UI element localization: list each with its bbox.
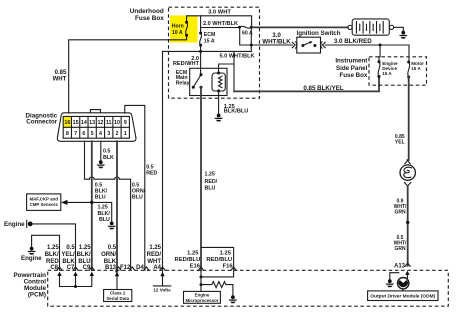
- svg-text:2: 2: [115, 131, 118, 137]
- svg-text:BLU: BLU: [205, 186, 216, 192]
- relay coil (with resistor): [212, 72, 225, 93]
- svg-text:GRN: GRN: [394, 209, 406, 215]
- ground (ODM): [388, 279, 392, 283]
- wire pin2 to B13: [116, 141, 118, 270]
- label 0.85 YEL: [395, 134, 405, 145]
- wire to MAF sensors (arrow): [61, 200, 92, 205]
- wire E16/F16 join inside PCM: [200, 270, 234, 291]
- svg-text:RED/BLU: RED/BLU: [175, 257, 201, 263]
- svg-text:BLK/: BLK/: [77, 252, 91, 258]
- label 1.25 RED/BLU E16: [175, 250, 201, 269]
- label 1.25 RED/WHT A4: [147, 245, 162, 271]
- svg-text:3.0 WHT: 3.0 WHT: [208, 9, 231, 15]
- svg-text:15: 15: [73, 120, 79, 126]
- wire transistor to ODM box: [402, 289, 404, 291]
- svg-text:A13: A13: [394, 263, 406, 269]
- engine connection symbol (C7): [27, 220, 33, 227]
- svg-text:Instrument: Instrument: [335, 58, 367, 65]
- wire A4 riser (1.25 RED/WHT from 5.0 bus): [162, 51, 164, 270]
- Class 2 Serial Data box: [104, 290, 132, 302]
- svg-text:14: 14: [81, 120, 87, 126]
- svg-text:Underhood: Underhood: [130, 8, 164, 15]
- ground (battery): [401, 31, 405, 35]
- diagnostic connector outline: [57, 113, 136, 142]
- wire 3.0 WHT/BLK (to ignition switch): [251, 44, 292, 46]
- wire pin6 to 0.5 ORN/BLU (F12) with hops: [85, 141, 131, 270]
- svg-text:4: 4: [99, 131, 102, 137]
- label 0.85 WHT: [53, 70, 67, 83]
- label Powertrain Control Module (PCM): [13, 272, 46, 299]
- svg-text:Fuse Box: Fuse Box: [135, 15, 164, 22]
- svg-text:YEL: YEL: [395, 139, 405, 145]
- wire 0.9 WHT/GRN - 0.5 WHT/GRN (lamp to A13): [406, 186, 409, 266]
- svg-text:Class 2: Class 2: [110, 290, 126, 295]
- svg-text:ORN/: ORN/: [132, 189, 146, 195]
- fuse ECM 15 A: [199, 32, 215, 47]
- svg-text:C7: C7: [67, 265, 75, 271]
- svg-text:BLU: BLU: [95, 195, 106, 201]
- wire 0.85 YEL (motor fuse to lamp): [408, 77, 409, 160]
- svg-text:0.5: 0.5: [95, 182, 102, 188]
- wire branch to ground 1.25 BLK/BLU: [92, 202, 112, 221]
- fuse 60 A (horizontal): [238, 26, 253, 37]
- svg-text:BLK: BLK: [104, 259, 117, 265]
- wire A13 to output transistor (arrow up): [405, 271, 409, 279]
- wire relay coil top link to 5.0 bus: [219, 51, 234, 91]
- lamp (indicator bulb): [400, 161, 415, 186]
- svg-text:1: 1: [124, 131, 127, 137]
- svg-text:BLU: BLU: [99, 217, 110, 223]
- pin F12: [120, 265, 135, 271]
- pin D4: [136, 265, 149, 271]
- wire battery negative: [394, 27, 404, 31]
- label 3.0 WHT/BLK: [262, 32, 291, 46]
- svg-text:0.85 BLK/YEL: 0.85 BLK/YEL: [303, 85, 343, 92]
- svg-text:BLU: BLU: [132, 195, 143, 201]
- svg-text:1.25: 1.25: [205, 171, 215, 177]
- label 0.5 YEL/BLK C7: [61, 245, 75, 271]
- label 0.5 WHT/GRN: [394, 235, 407, 252]
- svg-text:0.5: 0.5: [132, 182, 139, 188]
- wire pin9 to 0.5 RED (D4): [125, 105, 145, 270]
- relay switch contacts: [192, 73, 203, 88]
- svg-text:WHT: WHT: [53, 77, 67, 83]
- ground (Engine, C8): [30, 247, 34, 251]
- svg-text:1.25: 1.25: [149, 245, 161, 251]
- wire 60A bypass loop to ignition feed: [240, 27, 253, 51]
- MAF,CKP and CMP Sensors box: [27, 194, 61, 211]
- connector chevrons (ignition switch left): [292, 42, 297, 48]
- label 0.5 ORN/BLK B13: [101, 245, 117, 271]
- pin F16: [231, 267, 236, 270]
- label 1.25 RED/BLU F16: [206, 250, 233, 269]
- DLC pin cell grid: [63, 116, 129, 138]
- svg-text:12: 12: [97, 120, 103, 126]
- svg-text:BLK/: BLK/: [98, 211, 111, 217]
- connector chevrons (ignition switch right): [321, 42, 326, 48]
- svg-text:RED/: RED/: [205, 179, 218, 185]
- wire hop over pin5 wire: [90, 177, 95, 179]
- svg-text:BLK/: BLK/: [95, 189, 108, 195]
- svg-text:Horn: Horn: [172, 23, 184, 29]
- label 0.5 BLK: [103, 149, 114, 162]
- wire stub to ground (ODM): [390, 273, 399, 280]
- Output Driver Module box: [368, 291, 438, 301]
- wire 3.0 BLK/RED (ignition to fuse panel): [325, 44, 409, 63]
- wire battery feed (60A to battery left terminal): [251, 26, 347, 28]
- svg-text:WHT/BLK: WHT/BLK: [262, 39, 291, 46]
- resistor (PCM pull-down): [201, 282, 233, 296]
- wire 2.0 WHT/BLK (riser + feed to 60A fuse): [201, 16, 240, 33]
- label 1.25 BLK/BLU: [98, 205, 111, 223]
- label Diagnostic Connector: [26, 112, 58, 125]
- label ECM Main Relay: [176, 70, 190, 87]
- svg-text:13: 13: [89, 120, 95, 126]
- svg-text:6: 6: [82, 131, 85, 137]
- svg-text:(PCM): (PCM): [28, 292, 46, 299]
- DLC pin 16 highlight (yellow): [63, 116, 71, 127]
- pin A13: [405, 263, 410, 266]
- svg-text:9: 9: [124, 120, 127, 126]
- svg-text:Engine: Engine: [195, 292, 210, 297]
- battery: [348, 19, 394, 35]
- svg-text:12 Volts: 12 Volts: [153, 287, 171, 292]
- svg-text:Connector: Connector: [26, 119, 58, 126]
- wire 0.85 WHT (horn fuse to DLC pin 16): [69, 35, 187, 113]
- svg-text:8: 8: [66, 131, 69, 137]
- fuse Motor 15 A: [407, 61, 424, 79]
- Engine Microprocessor box: [184, 291, 221, 303]
- svg-text:ECM: ECM: [204, 32, 216, 38]
- svg-text:5.0 WHT/BLK: 5.0 WHT/BLK: [219, 53, 254, 59]
- wire C7 to Engine 0.5 YEL/BLK: [32, 224, 75, 270]
- wire A4 to 12 Volts terminal: [153, 271, 170, 286]
- pin C8: [57, 267, 62, 270]
- svg-text:15 A: 15 A: [382, 71, 392, 76]
- label 0.5 ORN/BLU: [132, 182, 146, 200]
- transistor (output driver): [398, 278, 409, 289]
- pin E16: [198, 267, 203, 270]
- PCM internal bus (C8 C7 C9): [57, 272, 94, 288]
- pin C7: [73, 267, 78, 270]
- svg-text:1.25: 1.25: [47, 245, 59, 251]
- wire pin5 to C9 (0.5 BLK/BLU / 1.25 BLK/BLU): [90, 141, 93, 270]
- wire relay output 1.25 RED/BLU (to PCM E16): [200, 87, 202, 270]
- svg-text:Side Panel: Side Panel: [336, 65, 368, 72]
- label 0.5 BLK/BLU: [95, 182, 108, 200]
- svg-text:0.85: 0.85: [55, 70, 67, 76]
- svg-text:0.5: 0.5: [66, 245, 75, 251]
- svg-text:15 A: 15 A: [411, 66, 421, 71]
- wire 0.85 BLK/YEL (to Engine Device fuse): [234, 77, 379, 92]
- ignition switch contacts: [301, 41, 316, 47]
- svg-text:Ignition Switch: Ignition Switch: [297, 30, 341, 37]
- wire 3.0 WHT (horn fuse top to battery drop): [187, 16, 252, 27]
- svg-text:BLK/: BLK/: [45, 252, 59, 258]
- pin C9: [89, 267, 94, 270]
- svg-text:3.0 BLK/RED: 3.0 BLK/RED: [334, 38, 372, 45]
- svg-text:RED: RED: [146, 171, 157, 177]
- label 2.0 RED/WHT: [173, 56, 200, 67]
- svg-text:BLK: BLK: [62, 259, 75, 265]
- label 1.25 BLK/BLU: [224, 104, 249, 115]
- svg-text:1.25: 1.25: [79, 245, 91, 251]
- wire relay coil ground 1.25 BLK/BLU: [218, 91, 220, 114]
- svg-text:2.0 WHT/BLK: 2.0 WHT/BLK: [203, 21, 238, 27]
- pin B13: [116, 267, 121, 270]
- label 1.25 BLK/RED C8: [45, 245, 60, 271]
- svg-text:7: 7: [74, 131, 77, 137]
- svg-text:Fuse Box: Fuse Box: [339, 72, 367, 79]
- svg-text:RED: RED: [46, 259, 59, 265]
- svg-text:0.5: 0.5: [146, 164, 153, 170]
- label 1.25 BLK/BLU C9: [77, 245, 92, 271]
- wire branch to F16: [201, 247, 234, 270]
- wire pin4 to ground 0.5 BLK: [100, 141, 102, 160]
- svg-text:1.25: 1.25: [187, 250, 199, 256]
- svg-text:Engine: Engine: [4, 221, 25, 228]
- svg-text:15 A: 15 A: [204, 38, 215, 44]
- pin A4: [160, 267, 165, 270]
- svg-text:0.5: 0.5: [103, 149, 110, 155]
- svg-text:1.25: 1.25: [98, 205, 108, 211]
- underhood fuse box (dashed enclosure): [169, 7, 260, 98]
- ground (pin4): [99, 160, 103, 164]
- svg-text:GRN: GRN: [394, 246, 406, 252]
- wire B13 to Class 2 Serial Data: [115, 270, 119, 289]
- diagnostic connector tab: [90, 110, 100, 113]
- svg-text:Microprocessor: Microprocessor: [186, 298, 219, 303]
- wire 2.0 RED/WHT (ECM fuse to relay switch): [200, 45, 202, 75]
- label Instrument Side Panel Fuse Box: [335, 58, 368, 79]
- ground (resistor): [231, 295, 235, 299]
- svg-text:BLU: BLU: [78, 259, 90, 265]
- svg-text:MAF,CKP and: MAF,CKP and: [29, 196, 58, 201]
- underhood fuse box label: [130, 8, 165, 22]
- svg-text:RED/BLU: RED/BLU: [206, 257, 232, 263]
- relay ECM Main Relay box: [190, 68, 227, 95]
- svg-text:Relay: Relay: [176, 81, 190, 87]
- wire C8 to Engine ground 1.25 BLK/RED: [32, 235, 60, 270]
- svg-text:RED/WHT: RED/WHT: [173, 61, 200, 67]
- svg-text:CMP Sensors: CMP Sensors: [30, 202, 59, 207]
- label 0.9 WHT/GRN: [394, 198, 407, 215]
- label 1.25 RED/BLU (mid): [205, 171, 218, 191]
- svg-text:BLK: BLK: [103, 155, 114, 161]
- wire hop over pin2 wire: [115, 177, 120, 179]
- powertrain control module PCM (dashed enclosure): [48, 270, 449, 306]
- fuse Engine Device 15 A: [378, 60, 398, 78]
- svg-text:YEL/: YEL/: [61, 252, 75, 258]
- svg-text:RED/: RED/: [147, 252, 162, 258]
- svg-text:Engine: Engine: [21, 255, 42, 262]
- svg-text:3: 3: [107, 131, 110, 137]
- svg-text:11: 11: [106, 120, 112, 126]
- svg-text:10: 10: [114, 120, 120, 126]
- svg-text:10 A: 10 A: [172, 30, 183, 36]
- svg-text:ORN/: ORN/: [101, 252, 116, 258]
- svg-text:B13: B13: [105, 265, 117, 271]
- svg-text:WHT: WHT: [147, 259, 161, 265]
- ground (relay coil): [217, 114, 221, 118]
- wire 5.0 WHT/BLK bus: [163, 50, 252, 53]
- svg-text:BLK/BLU: BLK/BLU: [224, 109, 249, 115]
- horn fuse highlight (yellow): [170, 16, 198, 43]
- svg-text:1.25: 1.25: [220, 250, 232, 256]
- label 0.5 RED: [146, 164, 157, 176]
- DLC pin numbers: [64, 120, 126, 137]
- wire Engine Device fuse top stem: [379, 45, 380, 62]
- instrument side panel fuse box (dashed): [369, 57, 427, 85]
- ignition switch box: [297, 37, 321, 53]
- svg-text:Output Driver Module (ODM): Output Driver Module (ODM): [370, 294, 435, 300]
- svg-text:Serial Data: Serial Data: [106, 296, 129, 301]
- svg-text:5: 5: [91, 131, 94, 137]
- fuse Horn 10 A: [172, 21, 188, 37]
- svg-text:16: 16: [64, 120, 70, 126]
- svg-text:0.5: 0.5: [108, 245, 117, 251]
- ground (1.25 BLK/BLU): [110, 222, 114, 226]
